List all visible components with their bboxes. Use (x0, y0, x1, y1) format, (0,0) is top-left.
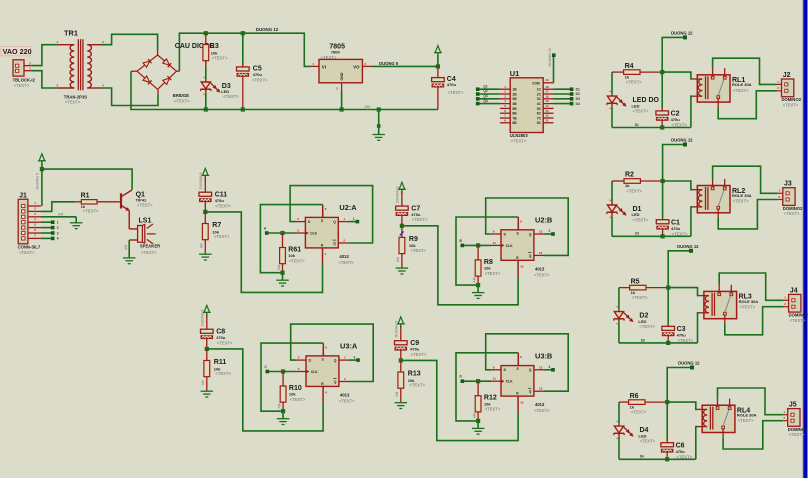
wire relay RL1 contact to J2 pin2 (718, 91, 776, 119)
wire 7805 ground to rail (340, 92, 344, 112)
wire U3:A Q output (349, 355, 360, 362)
svg-text:12: 12 (539, 387, 543, 391)
power arrow DUONG 5 at C7 (396, 182, 406, 203)
capacitor C9 (395, 326, 427, 362)
svg-text:VAO 220: VAO 220 (3, 47, 32, 56)
resistor R7 (199, 212, 230, 254)
svg-text:1k: 1k (625, 183, 630, 188)
LED LED DO (607, 72, 660, 127)
wire TBLOCK pin2 to transformer primary bottom (31, 71, 57, 88)
speaker LS1 (129, 217, 160, 255)
wire relay RL2 common to J3 pin1 (713, 166, 778, 193)
svg-text:<TEXT>: <TEXT> (639, 324, 655, 329)
svg-text:R13: R13 (408, 371, 421, 378)
svg-text:<TEXT>: <TEXT> (338, 260, 354, 265)
power arrow DUONG 5 at C8 (201, 305, 211, 326)
svg-text:AM: AM (124, 245, 128, 250)
wire U1 input net Q1 (476, 84, 500, 91)
wire 12V to relay coil of RL1 (662, 72, 692, 79)
resistor R8 (473, 245, 501, 287)
svg-text:<TEXT>: <TEXT> (738, 418, 754, 423)
svg-text:470u: 470u (411, 212, 421, 217)
svg-text:Q: Q (334, 380, 337, 384)
svg-text:D2: D2 (576, 92, 580, 96)
svg-text:2: 2 (57, 226, 59, 230)
power arrow DUONG 5 at C4 (434, 46, 442, 67)
svg-text:R2: R2 (625, 172, 634, 179)
wire transformer secondary bottom to bridge AC2 (101, 88, 159, 106)
svg-text:U2:A: U2:A (339, 203, 357, 212)
resistor R12 (473, 381, 501, 423)
ground below R10 (277, 411, 290, 424)
svg-text:ROLE 30A: ROLE 30A (737, 413, 757, 418)
svg-text:1B: 1B (512, 88, 517, 92)
svg-text:8C: 8C (537, 121, 542, 125)
U1 input pin 4 (pin 4B) (500, 99, 517, 106)
capacitor C4 (432, 64, 464, 109)
connector J2 DOMINO2 (777, 72, 802, 108)
svg-text:Q: Q (529, 368, 532, 372)
capacitor C7 (396, 192, 428, 228)
svg-text:470u: 470u (671, 117, 681, 122)
svg-text:AM: AM (277, 265, 281, 270)
svg-text:<TEXT>: <TEXT> (65, 100, 81, 105)
wire U3:A clock input (265, 365, 297, 374)
polarity mark near R9 (400, 231, 404, 235)
LED D1 (607, 181, 649, 236)
svg-text:VI: VI (322, 64, 326, 69)
svg-text:<TEXT>: <TEXT> (411, 248, 427, 253)
svg-text:AM: AM (396, 257, 400, 262)
wire J1 pin2 to R1 (41, 202, 75, 212)
wire driver net D1 bottom rail (612, 123, 691, 128)
connector J4 DOMINO2 (784, 287, 808, 323)
capacitor C2 (656, 72, 688, 130)
svg-text:4B: 4B (512, 102, 517, 106)
svg-text:<TEXT>: <TEXT> (534, 408, 550, 413)
svg-text:TR1: TR1 (64, 28, 78, 37)
svg-text:<TEXT>: <TEXT> (411, 352, 427, 357)
wire 5V to J1 pin1 and Q1 collector (40, 163, 132, 206)
svg-text:U2:B: U2:B (535, 216, 552, 225)
svg-text:CLK: CLK (311, 370, 318, 374)
U1 output pin 13 (pin 6C) (537, 109, 554, 116)
svg-text:3B: 3B (512, 97, 517, 101)
wire U3:B S to pulldown node (456, 353, 518, 421)
svg-text:7C: 7C (537, 116, 542, 120)
wire 12V to relay coil of RL2 (663, 181, 693, 190)
svg-text:Q: Q (529, 232, 532, 236)
svg-text:BRIDGE: BRIDGE (173, 93, 189, 98)
svg-text:DUONG 12: DUONG 12 (671, 30, 693, 35)
svg-text:15: 15 (545, 99, 549, 103)
ground at J1 pin3 (70, 217, 83, 229)
wire 12V to relay coil of RL3 (668, 288, 699, 296)
wire U2:A S to pulldown node (260, 205, 322, 273)
svg-text:13: 13 (545, 109, 549, 113)
svg-text:470u: 470u (447, 82, 457, 87)
svg-text:<TEXT>: <TEXT> (412, 217, 428, 222)
capacitor C11 (199, 178, 231, 214)
svg-text:470u: 470u (410, 346, 420, 351)
svg-text:<TEXT>: <TEXT> (534, 272, 550, 277)
svg-text:<TEXT>: <TEXT> (790, 318, 806, 323)
svg-text:TIP41: TIP41 (136, 197, 147, 202)
resistor R11 (201, 349, 232, 391)
svg-text:13: 13 (539, 365, 543, 369)
wire TBLOCK pin1 to transformer primary top (31, 45, 57, 66)
wire U3:A S to pulldown node (261, 343, 323, 411)
wire U2:A reset net from C11 (205, 212, 322, 293)
resistor R1 (75, 192, 120, 213)
svg-text:DUONG 12: DUONG 12 (548, 48, 552, 66)
wire U2:B clock input (460, 239, 492, 248)
relay RL3 (699, 285, 758, 324)
svg-text:D2: D2 (635, 232, 639, 236)
svg-text:4013: 4013 (340, 392, 350, 397)
svg-text:R11: R11 (214, 359, 227, 366)
transformer TR1 (57, 28, 105, 104)
svg-text:<TEXT>: <TEXT> (485, 407, 501, 412)
svg-text:D1: D1 (635, 123, 639, 127)
wire relay RL3 common to J4 pin1 (719, 273, 783, 300)
svg-text:470u: 470u (253, 72, 263, 77)
svg-text:GND: GND (340, 72, 344, 80)
svg-text:1: 1 (57, 221, 59, 225)
svg-text:COM: COM (532, 82, 540, 86)
wire bridge DC- to ground rail (131, 71, 438, 109)
wire U2:B feedback Q-bar to D (486, 198, 569, 255)
wire 12V node to R6 rail (667, 368, 690, 403)
wire relay coil of RL2 to D2 (691, 207, 693, 236)
wire relay RL2 contact to J3 pin2 (718, 200, 778, 229)
wire LS1 to ground (123, 240, 136, 264)
D flip-flop U2:A (4013) (295, 203, 357, 265)
bridge rectifier BRIDGE (131, 50, 190, 104)
ground symbol near 7805 (365, 105, 385, 140)
svg-text:<TEXT>: <TEXT> (633, 218, 649, 223)
svg-text:Q2: Q2 (483, 89, 487, 93)
svg-text:LED: LED (632, 103, 640, 108)
svg-text:14: 14 (545, 104, 549, 108)
U1 output pin 15 (pin 4C) (537, 99, 554, 106)
resistor R61 (277, 233, 305, 275)
svg-text:<TEXT>: <TEXT> (631, 410, 647, 415)
svg-text:7B: 7B (512, 116, 517, 120)
svg-text:1k: 1k (630, 404, 635, 409)
wire relay RL4 common to J5 pin1 (718, 388, 783, 415)
svg-text:R7: R7 (212, 222, 221, 229)
U1 output pin 17 (pin 2C) (537, 90, 554, 97)
wire U3:B Q output (544, 365, 555, 372)
D flip-flop U3:A (4013) (296, 342, 358, 404)
svg-text:Q: Q (334, 359, 337, 363)
ground below R13 (395, 403, 408, 409)
svg-text:Q1: Q1 (483, 84, 487, 88)
wire driver net D4 bottom rail (619, 455, 696, 460)
svg-text:<TEXT>: <TEXT> (733, 199, 749, 204)
svg-text:Q: Q (529, 390, 532, 394)
svg-text:<TEXT>: <TEXT> (626, 80, 642, 85)
U1 input pin 7 (pin 7B) (500, 114, 517, 121)
ground below R8 (472, 285, 485, 298)
svg-text:<TEXT>: <TEXT> (137, 203, 153, 208)
window border right edge (802, 0, 808, 478)
U1 output pin 14 (pin 5C) (537, 104, 554, 111)
connector J3 DOMINO2 (778, 181, 803, 217)
resistor R3 (203, 31, 228, 79)
resistor R9 (396, 226, 427, 268)
wire 12V to relay coil of RL4 (667, 402, 697, 409)
svg-text:R4: R4 (625, 63, 634, 70)
svg-text:<TEXT>: <TEXT> (215, 203, 231, 208)
svg-text:10: 10 (520, 400, 524, 404)
resistor R5 (619, 278, 670, 300)
svg-text:AM: AM (58, 212, 63, 216)
wire U3:A reset net from C8 (207, 349, 323, 431)
svg-text:VO: VO (353, 64, 360, 69)
svg-text:3: 3 (354, 355, 356, 359)
svg-text:7800: 7800 (331, 50, 341, 55)
svg-text:DUONG 12: DUONG 12 (256, 27, 279, 32)
ground below R11 (201, 391, 214, 397)
svg-text:5C: 5C (537, 107, 542, 111)
ground below R61 (276, 273, 289, 286)
svg-text:J1: J1 (19, 193, 27, 200)
svg-text:10: 10 (520, 265, 524, 269)
voltage regulator U2 7805 (310, 43, 371, 92)
wire U2:A Q output (348, 217, 359, 224)
capacitor C5 (237, 31, 269, 112)
svg-text:AM: AM (199, 243, 203, 248)
svg-text:<TEXT>: <TEXT> (448, 90, 464, 95)
power arrow DUONG 5 at C11 (199, 168, 209, 189)
svg-text:J4: J4 (790, 287, 798, 294)
resistor R13 (395, 360, 426, 402)
wire 12V node to R4 rail (662, 37, 683, 72)
svg-text:<TEXT>: <TEXT> (83, 208, 99, 213)
wire U2:A clock input (264, 226, 296, 235)
capacitor C1 (656, 181, 688, 238)
svg-text:U3:B: U3:B (535, 351, 552, 360)
ground below R9 (396, 268, 409, 274)
svg-text:<TEXT>: <TEXT> (633, 109, 649, 114)
wire U2:A feedback Q-bar to D (290, 186, 373, 243)
svg-text:DUONG 5: DUONG 5 (199, 173, 203, 189)
wire relay RL1 common to J2 pin1 (713, 58, 777, 84)
U1 output pin 12 (pin 7C) (537, 114, 554, 121)
svg-text:16: 16 (545, 94, 549, 98)
svg-text:J3: J3 (784, 181, 792, 188)
svg-text:TRAN-2P3S: TRAN-2P3S (64, 94, 87, 99)
svg-text:DUONG 12: DUONG 12 (678, 361, 700, 366)
wire relay RL3 contact to J4 pin2 (725, 307, 784, 335)
wire U1 output net D2 (554, 92, 580, 96)
svg-text:R1: R1 (81, 192, 90, 199)
svg-text:13: 13 (539, 230, 543, 234)
svg-text:6B: 6B (512, 112, 517, 116)
svg-text:ULN2803: ULN2803 (510, 133, 529, 138)
wire relay coil of RL1 to D1 (691, 96, 693, 127)
svg-text:10: 10 (545, 78, 549, 82)
svg-text:4013: 4013 (535, 402, 545, 407)
svg-text:<TEXT>: <TEXT> (289, 258, 305, 263)
wire U3:B reset net from C9 (401, 360, 518, 440)
U1 output pin 11 (pin 8C) (537, 118, 554, 125)
svg-text:J5: J5 (789, 402, 797, 409)
svg-text:1k: 1k (625, 74, 630, 79)
wire U1 COM to 12V power node (548, 48, 556, 83)
wire U3:B clock input (460, 375, 492, 384)
relay RL2 (693, 179, 752, 218)
svg-text:J2: J2 (783, 72, 791, 79)
svg-text:<TEXT>: <TEXT> (215, 371, 231, 376)
svg-text:D4: D4 (576, 102, 580, 106)
svg-text:<TEXT>: <TEXT> (626, 189, 642, 194)
svg-text:<TEXT>: <TEXT> (511, 139, 527, 144)
svg-text:<TEXT>: <TEXT> (141, 250, 157, 255)
svg-text:<TEXT>: <TEXT> (485, 271, 501, 276)
svg-text:<TEXT>: <TEXT> (214, 234, 230, 239)
svg-text:11: 11 (493, 241, 497, 245)
svg-text:DUONG 5: DUONG 5 (201, 310, 205, 326)
svg-text:12: 12 (545, 114, 549, 118)
wire driver net D2 bottom rail (612, 232, 691, 237)
svg-text:LED: LED (639, 433, 647, 438)
svg-text:Q: Q (333, 220, 336, 224)
wire U1 input net Q3 (476, 94, 500, 101)
U1 input pin 3 (pin 3B) (500, 94, 517, 101)
LED D4 (614, 402, 656, 459)
connector TBLOCK-I2 (mains input) (13, 60, 36, 88)
svg-text:470u: 470u (676, 449, 686, 454)
power node DUONG 12 for RL3 (677, 244, 699, 253)
svg-text:1C: 1C (537, 88, 542, 92)
connector J5 DOMINO2 (783, 402, 808, 438)
svg-text:<TEXT>: <TEXT> (19, 250, 35, 255)
D flip-flop U3:B (4013) (491, 351, 552, 413)
svg-text:4C: 4C (537, 102, 542, 106)
svg-text:<TEXT>: <TEXT> (252, 78, 268, 83)
svg-text:1: 1 (353, 217, 355, 221)
svg-text:Q4: Q4 (483, 99, 487, 103)
svg-text:18: 18 (545, 85, 549, 89)
svg-text:CLK: CLK (506, 380, 513, 384)
svg-text:1k: 1k (631, 290, 636, 295)
svg-text:DUONG 12: DUONG 12 (677, 244, 699, 249)
U1 input pin 5 (pin 5B) (500, 104, 517, 111)
svg-text:DUONG 5: DUONG 5 (396, 186, 400, 202)
svg-text:4013: 4013 (535, 266, 545, 271)
svg-text:ROLE 30A: ROLE 30A (739, 299, 759, 304)
svg-text:<TEXT>: <TEXT> (223, 94, 239, 99)
power node DUONG 12 for RL1 (671, 30, 693, 39)
svg-text:AM: AM (365, 105, 370, 109)
U1 input pin 8 (pin 8B) (500, 118, 517, 125)
svg-text:Q: Q (529, 254, 532, 258)
LED D2 (614, 288, 656, 343)
ground below R12 (472, 421, 485, 434)
svg-text:AM: AM (395, 392, 399, 397)
relay RL1 (693, 68, 752, 107)
wire U2:B Q output (544, 229, 555, 236)
svg-text:D1: D1 (576, 87, 580, 91)
svg-text:<TEXT>: <TEXT> (14, 83, 30, 88)
svg-text:AM: AM (278, 403, 282, 408)
svg-text:2B: 2B (512, 92, 517, 96)
LED D3 (201, 77, 240, 111)
wire driver net D3 bottom rail (619, 338, 698, 343)
svg-text:DUONG 12: DUONG 12 (671, 138, 693, 143)
svg-text:D4: D4 (640, 455, 644, 459)
svg-text:R5: R5 (631, 278, 640, 285)
svg-text:Q3: Q3 (483, 94, 487, 98)
svg-text:DUONG 5: DUONG 5 (395, 321, 399, 337)
transistor Q1 TIP41 (121, 190, 153, 229)
wire transformer secondary top to bridge AC1 (101, 34, 158, 50)
svg-text:AM: AM (473, 413, 477, 418)
svg-text:470u: 470u (677, 333, 687, 338)
svg-text:LED: LED (632, 212, 640, 217)
capacitor C3 (662, 288, 694, 345)
svg-text:2: 2 (549, 229, 551, 233)
U1 input pin 2 (pin 2B) (500, 90, 517, 97)
svg-text:<TEXT>: <TEXT> (339, 399, 355, 404)
wire U1 output net D3 (554, 97, 580, 101)
wire U1 output net D1 (554, 87, 580, 91)
wire U1 input net Q2 (476, 89, 500, 96)
svg-text:4: 4 (549, 365, 551, 369)
wire J1 pin7 net (41, 237, 59, 241)
svg-text:CLK: CLK (506, 244, 513, 248)
svg-text:ROLE 30A: ROLE 30A (732, 82, 752, 87)
D flip-flop U2:B (4013) (491, 216, 552, 278)
svg-text:DUONG 5: DUONG 5 (379, 61, 399, 66)
svg-text:<TEXT>: <TEXT> (217, 340, 233, 345)
svg-text:<TEXT>: <TEXT> (784, 211, 800, 216)
wire U3:A feedback Q-bar to D (291, 324, 374, 381)
svg-text:<TEXT>: <TEXT> (212, 56, 228, 61)
svg-text:2C: 2C (537, 92, 542, 96)
wire relay coil of RL4 to D4 (696, 427, 698, 460)
svg-text:<TEXT>: <TEXT> (789, 432, 805, 437)
svg-text:<TEXT>: <TEXT> (174, 99, 190, 104)
capacitor C6 (661, 402, 693, 461)
svg-text:R3: R3 (210, 43, 219, 50)
power arrow DUONG 5 at C9 (395, 317, 405, 338)
resistor R10 (278, 372, 306, 414)
wire U2:B S to pulldown node (456, 217, 518, 285)
wire 7805 output 5V rail (372, 65, 438, 67)
relay RL4 (698, 399, 757, 438)
svg-text:<TEXT>: <TEXT> (632, 295, 648, 300)
svg-text:11: 11 (545, 118, 549, 122)
svg-text:U3:A: U3:A (340, 342, 358, 351)
connector J1 CONN-SIL7 (18, 193, 41, 255)
svg-text:<TEXT>: <TEXT> (409, 383, 425, 388)
svg-text:17: 17 (545, 90, 549, 94)
svg-text:AM: AM (473, 277, 477, 282)
resistor R6 (619, 393, 669, 415)
resistor R4 (612, 63, 664, 85)
resistor R2 (612, 172, 665, 194)
svg-text:SPEAKER: SPEAKER (140, 243, 160, 248)
power node DUONG 12 for RL4 (678, 361, 700, 370)
wire J1 pin5 net (41, 226, 59, 230)
svg-text:DUONG 5: DUONG 5 (35, 173, 39, 189)
svg-text:8B: 8B (512, 121, 517, 125)
power arrow DUONG 5 at J1 (35, 154, 46, 190)
